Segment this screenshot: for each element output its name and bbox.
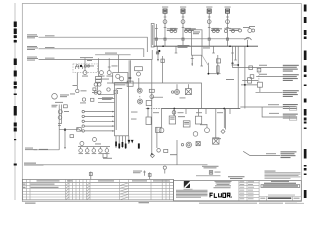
drop wire from junction cluster bbox=[162, 56, 164, 83]
motor row captions bbox=[79, 152, 110, 155]
feeder 1 breaker box bbox=[163, 9, 167, 13]
dashed box inner ticks bbox=[75, 66, 77, 69]
bus2 node bbox=[223, 108, 225, 110]
arrowheads into cabinet bbox=[112, 111, 115, 113]
motor cluster mid bbox=[176, 84, 178, 89]
relay circle right b bbox=[252, 29, 255, 32]
motor circle bbox=[193, 132, 198, 137]
cluster caption d bbox=[92, 91, 98, 94]
mid right small cluster bbox=[156, 127, 161, 132]
feeder 4 relay caption bbox=[224, 27, 231, 30]
load label R6 bbox=[281, 151, 297, 158]
caption near switch R2 bbox=[259, 73, 267, 76]
motor M1 bbox=[137, 88, 142, 93]
bus2 node b bbox=[173, 108, 175, 110]
left feeder column wire a bbox=[58, 105, 60, 150]
bus junction dots bbox=[162, 45, 164, 47]
drop from node bbox=[64, 130, 66, 147]
relay circle right a bbox=[239, 29, 242, 32]
feeder 3 relay circle a bbox=[212, 30, 215, 33]
tick on riser bbox=[155, 28, 158, 30]
note text bbox=[133, 170, 142, 173]
legend symbol box bbox=[209, 171, 212, 175]
dashed instrument box bbox=[73, 64, 98, 73]
feeder 2 breaker box bbox=[181, 9, 185, 13]
drop end ticks bbox=[156, 52, 234, 54]
node bbox=[151, 153, 153, 155]
row lines bbox=[22, 185, 173, 187]
feeder 3 tick bbox=[208, 16, 211, 18]
title block bbox=[174, 181, 302, 201]
feeder 2 side label bbox=[185, 28, 196, 31]
lower-left motor cluster bbox=[80, 142, 84, 146]
text blob bbox=[103, 157, 112, 160]
right riser 1 bbox=[237, 46, 239, 108]
box on enclosure wire bbox=[146, 101, 151, 106]
left ruler line bbox=[14, 3, 16, 200]
bus2 node a bbox=[147, 108, 149, 110]
legend caption right bbox=[215, 171, 221, 174]
riser tag box (vertical text) bbox=[151, 24, 154, 48]
wire to R4 bbox=[240, 106, 282, 108]
cut note left bbox=[25, 203, 36, 204]
small text bbox=[226, 78, 234, 81]
meter circle pair 1 bbox=[94, 83, 97, 86]
column ticks bbox=[58, 123, 61, 125]
feeder 2 relay circle a bbox=[185, 30, 188, 33]
junction node bbox=[64, 129, 66, 131]
switch component bbox=[77, 128, 82, 132]
wire to R2 bbox=[256, 76, 283, 78]
right mid wire 1 bbox=[242, 79, 258, 81]
revision row text bbox=[31, 184, 55, 185]
left feeder column wire b bbox=[61, 105, 63, 125]
cluster wire bbox=[97, 82, 99, 91]
wire to R1 bbox=[233, 67, 284, 69]
lone meter circle bbox=[76, 89, 79, 92]
node bbox=[217, 73, 219, 75]
feeder 3 relay caption bbox=[212, 27, 219, 30]
cluster wire bottom bbox=[76, 73, 78, 90]
load label R4 bbox=[283, 104, 298, 109]
wire to R3 bbox=[256, 91, 283, 93]
right ruler dashes bbox=[304, 5, 307, 199]
legend text bbox=[202, 165, 219, 168]
title box bbox=[261, 185, 300, 188]
transformer drop wire bbox=[191, 55, 193, 66]
caption under bus right bbox=[203, 47, 210, 50]
feeder 2 meter circle bbox=[181, 20, 185, 24]
transformer T1 label bbox=[178, 45, 190, 46]
meter circles row bbox=[83, 71, 87, 75]
feeder 1 tick bbox=[164, 16, 167, 18]
right mid box bbox=[248, 78, 252, 83]
feeder 3 CT square bbox=[208, 38, 210, 40]
leader from T1 bbox=[202, 55, 208, 65]
column meter circle 1 bbox=[58, 110, 62, 114]
bus2 drops extra bbox=[162, 109, 226, 138]
box on riser bbox=[149, 89, 154, 92]
left ruler dashes bbox=[14, 22, 17, 166]
aux wire bbox=[217, 55, 219, 74]
caption over R4 wire bbox=[268, 103, 279, 106]
bus2 dashed extension bbox=[146, 108, 162, 110]
transformer T1 bbox=[192, 30, 203, 55]
disclaimer paragraph bbox=[176, 190, 208, 198]
cabinet caption right bbox=[131, 111, 138, 114]
stacked relay boxes bbox=[96, 77, 102, 80]
R5 tag box bbox=[289, 116, 296, 120]
column top caption bbox=[52, 104, 58, 107]
wire from label C bbox=[39, 59, 153, 61]
address text bbox=[215, 180, 232, 183]
wire across bbox=[59, 129, 78, 131]
junction box feed bbox=[127, 81, 133, 86]
motor row bbox=[79, 149, 83, 153]
black bar terminals bbox=[115, 142, 117, 147]
tick bbox=[207, 63, 209, 74]
incoming line label A bbox=[27, 34, 55, 38]
feeder 4 tick bbox=[226, 16, 229, 18]
cabinet inlet wires lower bbox=[85, 112, 115, 131]
cluster mid text bbox=[100, 78, 109, 81]
riser pair right bbox=[128, 60, 130, 82]
aux box on dashed line bbox=[257, 82, 262, 87]
feeder 4 breaker box bbox=[226, 9, 230, 13]
diagonal leader to R6 bbox=[243, 151, 280, 155]
wire row bbox=[78, 146, 110, 148]
feeder 4 relay circle b bbox=[232, 30, 235, 33]
text blobs cluster 2 bbox=[178, 115, 185, 118]
feeder 2 tick bbox=[182, 16, 185, 18]
feeder 1 side label bbox=[167, 28, 178, 31]
small circle bbox=[181, 144, 183, 146]
header underline bbox=[22, 182, 173, 184]
feeder 3 meter circle bbox=[207, 20, 211, 24]
CT square riser bbox=[155, 38, 157, 40]
small box c bbox=[114, 90, 118, 93]
feeder 1 relay circle b bbox=[174, 30, 177, 33]
circle C3 bbox=[205, 128, 210, 133]
bus2 drop with meter bbox=[173, 109, 175, 117]
circle on L5 wire bbox=[163, 166, 166, 169]
starter box bbox=[103, 154, 107, 158]
load label R2 bbox=[283, 74, 299, 81]
cabinet bottom drops bbox=[116, 136, 129, 149]
second bus bbox=[162, 108, 241, 110]
switch box R1 bbox=[249, 66, 253, 70]
tick between motors bbox=[139, 96, 141, 97]
box on drop wire bbox=[161, 59, 164, 62]
small fuse symbol above table bbox=[149, 172, 151, 179]
PLC cabinet rectangle bbox=[115, 83, 129, 136]
right riser 2 bbox=[244, 46, 246, 108]
R4 tag box bbox=[289, 106, 296, 110]
feeder 3 breaker box bbox=[207, 9, 211, 13]
bus drop 2 bbox=[175, 46, 177, 53]
bus2 drop bbox=[223, 109, 225, 129]
contactor box bbox=[213, 138, 219, 144]
general notes block bbox=[265, 171, 301, 179]
project title lines bbox=[271, 181, 289, 182]
feeder 1 wire bbox=[164, 13, 166, 46]
load label R3 bbox=[283, 90, 299, 97]
small box bbox=[164, 149, 168, 152]
header text bbox=[37, 180, 60, 181]
incoming line label D bbox=[25, 148, 48, 150]
diamond node bbox=[221, 130, 225, 134]
small box e bbox=[91, 98, 94, 101]
captions above boxes bbox=[153, 111, 223, 114]
feeder 4 CT square bbox=[226, 38, 228, 40]
wire y55 bbox=[95, 54, 131, 56]
dashed tie line bbox=[258, 70, 260, 83]
incoming line label B bbox=[27, 46, 55, 50]
cluster drop b bbox=[108, 58, 110, 70]
bus drop 3 bbox=[213, 46, 215, 53]
wire from bus drop to R1 bbox=[232, 53, 234, 68]
cluster tick b bbox=[108, 66, 111, 68]
feeder 2 relay caption bbox=[185, 27, 192, 30]
cut note mid bbox=[139, 202, 150, 203]
sheet border frame bbox=[22, 4, 301, 202]
motor M2 bbox=[138, 99, 143, 104]
feeder 1 tag caption bbox=[162, 6, 168, 9]
feeder arrow down bbox=[157, 52, 159, 59]
load label R1 bbox=[283, 65, 299, 72]
column lines bbox=[26, 179, 169, 200]
incoming line label C bbox=[27, 57, 55, 61]
approval texts bbox=[240, 181, 254, 199]
feeder 4 tick2 bbox=[226, 27, 229, 29]
junction box below bus bbox=[156, 52, 158, 54]
wire branch C up bbox=[151, 50, 153, 60]
junction node bbox=[158, 50, 160, 52]
small motor e bbox=[82, 98, 85, 101]
small caption over wire bbox=[105, 52, 117, 55]
load label R5 bbox=[283, 114, 298, 119]
node dot bbox=[80, 65, 82, 67]
feeder 3 relay circle b bbox=[216, 30, 219, 33]
cluster caption e bbox=[70, 93, 75, 96]
feeder 4 side label bbox=[229, 28, 240, 31]
sheet size note bbox=[297, 202, 304, 205]
node bbox=[232, 62, 234, 64]
breaker top right bbox=[245, 38, 252, 41]
motor row stubs bbox=[81, 147, 107, 149]
feeder 4 relay circle a bbox=[224, 30, 227, 33]
main bus bbox=[154, 45, 259, 47]
generator circle G1 bbox=[186, 142, 191, 147]
node bbox=[244, 84, 246, 86]
aux box bbox=[217, 59, 221, 63]
small box right of R1 switch bbox=[257, 68, 261, 72]
cluster caption a bbox=[88, 65, 94, 68]
transformer box with symbol bbox=[113, 73, 128, 84]
wire riser bbox=[155, 24, 157, 46]
feeder 3 side label bbox=[211, 28, 222, 31]
node bbox=[208, 73, 210, 75]
enclosure wire bbox=[151, 60, 153, 155]
black arrow markers bbox=[128, 140, 131, 144]
switch box R2 bbox=[250, 75, 254, 79]
wire bbox=[208, 73, 220, 75]
cluster caption f bbox=[87, 59, 92, 62]
short drop right bbox=[235, 46, 237, 60]
feeder 1 tick2 bbox=[164, 27, 167, 29]
small mark left bbox=[144, 171, 146, 176]
node bbox=[237, 64, 239, 66]
note text pair bbox=[228, 176, 245, 177]
wire from label A bbox=[39, 37, 148, 52]
M1 stub wire bbox=[138, 78, 140, 90]
feed wire upper bbox=[107, 83, 202, 109]
right mid wire 2 bbox=[241, 84, 257, 86]
FLUOR logo bbox=[210, 193, 230, 197]
feeder 2 relay circle b bbox=[188, 30, 191, 33]
wire from label B bbox=[39, 49, 144, 57]
cluster tick a bbox=[84, 66, 87, 68]
caption near switch R1 bbox=[259, 64, 267, 67]
feeder 1 relay circle a bbox=[170, 30, 173, 33]
bus drop 4 bbox=[232, 46, 234, 53]
wire to R5 bbox=[262, 107, 283, 117]
component bbox=[70, 135, 74, 138]
incoming line label E bbox=[24, 163, 44, 166]
wire vertical bbox=[98, 58, 100, 76]
starter box bbox=[183, 121, 190, 127]
feeder 3 tag caption bbox=[206, 6, 212, 9]
black bar bbox=[138, 143, 140, 148]
caption over R5 wire bbox=[269, 112, 279, 115]
inlet end circles bbox=[82, 110, 84, 112]
feeder box B1 bbox=[146, 117, 151, 125]
label hatch bbox=[102, 96, 113, 99]
leader caption bbox=[266, 152, 276, 155]
wire from label E bbox=[44, 164, 208, 166]
feeder 4 meter circle bbox=[226, 20, 230, 24]
feeder 2 CT square bbox=[182, 38, 184, 40]
cluster drop a bbox=[84, 58, 86, 70]
small relief valve symbol bbox=[90, 172, 92, 180]
column meter circle 2 bbox=[58, 116, 62, 120]
bus drop 1 bbox=[156, 46, 158, 53]
circle on riser bbox=[150, 95, 154, 99]
meter circle pair 2 bbox=[94, 91, 97, 94]
signature slashes bbox=[66, 183, 129, 200]
feeder box B2 bbox=[169, 116, 175, 124]
fine print file line bbox=[199, 202, 257, 205]
feeder 1 CT square bbox=[164, 38, 166, 40]
bottom row of title area bbox=[259, 196, 301, 198]
feeder 1 relay caption bbox=[170, 27, 177, 30]
fluor daniel logo mark bbox=[184, 181, 190, 188]
motor circle 2 bbox=[159, 128, 164, 133]
legend underline bbox=[196, 175, 221, 177]
cabinet inlet wires upper bbox=[98, 94, 115, 96]
generator G2 bbox=[52, 94, 58, 100]
feeder 3 wire bbox=[208, 13, 210, 46]
small circle b bbox=[107, 88, 110, 91]
cluster drop c bbox=[118, 55, 120, 73]
cluster caption c bbox=[73, 84, 78, 87]
cluster caption b bbox=[112, 65, 118, 68]
riser to legend bbox=[176, 140, 178, 165]
column top box bbox=[64, 105, 68, 108]
feeder 4 wire bbox=[227, 13, 229, 46]
wire from label D bbox=[34, 149, 60, 151]
feeder 1 meter circle bbox=[163, 20, 167, 24]
fuse element bbox=[217, 66, 219, 73]
revision table bbox=[22, 179, 173, 200]
feeder 3 tick2 bbox=[208, 27, 211, 29]
tap wire bbox=[231, 64, 238, 66]
aux component right bbox=[135, 67, 143, 71]
caption bbox=[249, 25, 255, 28]
small box a bbox=[93, 88, 96, 91]
approval mini table bbox=[239, 181, 259, 201]
feeder 2 tag caption bbox=[180, 6, 186, 9]
bus2 small drops bbox=[185, 109, 187, 115]
feeder 4 tag caption bbox=[225, 6, 231, 9]
upper tie wire bbox=[154, 38, 250, 40]
X box bbox=[196, 142, 200, 146]
feeder 2 tick2 bbox=[182, 27, 185, 29]
feeder box B4 bbox=[195, 116, 201, 124]
T1 secondary drop bbox=[201, 55, 203, 66]
feeder 2 wire bbox=[182, 13, 184, 46]
